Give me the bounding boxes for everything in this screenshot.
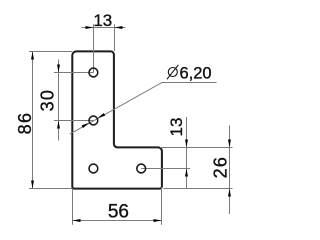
- hole H3 bottom-left: [89, 164, 98, 173]
- dimension line 56: [73, 220, 162, 222]
- hole H1 top: [89, 68, 98, 77]
- svg-text:6,20: 6,20: [180, 64, 212, 82]
- arrow 30 top: [57, 65, 60, 73]
- plate outline (L-shaped bracket): [72, 51, 162, 188]
- arrow 13 right bottom: [185, 169, 188, 177]
- arrow 13 top left: [86, 26, 94, 29]
- extension line hole H4 center for 13: [141, 168, 190, 170]
- dimension line 30: [58, 60, 60, 141]
- extension line bottom-right for 26: [164, 188, 233, 190]
- arrow 13 top right: [115, 26, 123, 29]
- arrow 13 right top: [185, 140, 188, 148]
- arrow 86 top: [31, 52, 34, 60]
- extension line top-left for 86: [29, 51, 72, 53]
- extension line plate left edge down for 56: [72, 189, 74, 225]
- hole H4 right: [137, 164, 146, 173]
- arrow 26 bottom: [228, 189, 231, 197]
- arrow 56 right: [154, 219, 162, 222]
- extension line plate right edge down for 56: [161, 187, 163, 225]
- arrow 56 left: [73, 219, 81, 222]
- extension line hole H1 center for 30: [54, 72, 93, 74]
- svg-text:56: 56: [108, 202, 129, 223]
- svg-text:13: 13: [167, 118, 186, 137]
- dimension line 13 top: [82, 27, 126, 29]
- dimension line 86: [32, 52, 34, 189]
- svg-text:86: 86: [15, 112, 35, 135]
- arrow 86 bottom: [31, 181, 34, 189]
- svg-text:13: 13: [93, 11, 112, 30]
- extension line leg top edge for 13/26: [160, 147, 233, 149]
- extension line bottom-left for 86: [29, 188, 72, 190]
- extension line hole H2 center for 30: [54, 120, 93, 122]
- extension line hole centerline vertical for 13 top: [93, 24, 95, 72]
- dimension line 13 right: [186, 117, 188, 188]
- arrow 26 top: [228, 140, 231, 148]
- svg-text:26: 26: [211, 156, 231, 179]
- diameter symbol: [167, 65, 179, 80]
- leader arrow upper-right: [98, 113, 106, 118]
- dimension line 26: [229, 126, 231, 215]
- hole H2 middle (dia 6,20): [89, 116, 98, 125]
- leader arrow lower-left: [82, 123, 90, 128]
- leader line dia 6,20 through hole H2: [70, 83, 217, 135]
- svg-text:30: 30: [37, 89, 57, 112]
- extension line plate right edge up for 13 top: [114, 24, 116, 51]
- arrow 30 bottom: [57, 121, 60, 129]
